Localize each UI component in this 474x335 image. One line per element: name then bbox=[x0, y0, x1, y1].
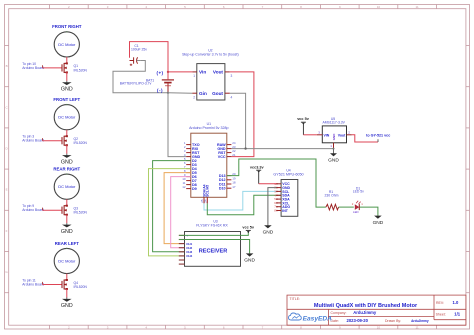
svg-text:Arduino Board: Arduino Board bbox=[22, 282, 44, 286]
svg-text:Gin: Gin bbox=[199, 91, 207, 96]
svg-text:IRL520N: IRL520N bbox=[74, 68, 88, 72]
wire C1 minus to battery minus bbox=[113, 61, 168, 93]
pin 2 U5 Vout bbox=[347, 134, 352, 136]
svg-text:vcc 5v: vcc 5v bbox=[242, 225, 255, 229]
op-module U2 step-up converter bbox=[182, 49, 239, 100]
wire receiver plus to vcc5v bbox=[179, 231, 248, 235]
wire U5 Vout to net label bbox=[352, 135, 378, 142]
svg-text:Arduino Board: Arduino Board bbox=[22, 66, 44, 70]
pin 24b U1 SCL/A5 bbox=[203, 185, 209, 204]
resistor R1 230 Ohm bbox=[325, 190, 339, 210]
pin 3 U1 RST bbox=[184, 149, 200, 155]
svg-text:GND: GND bbox=[244, 258, 255, 264]
svg-text:BATTERY/LIPO-3.7v: BATTERY/LIPO-3.7v bbox=[120, 82, 152, 86]
svg-text:GND: GND bbox=[332, 133, 336, 141]
pin 1 U4 VCC bbox=[274, 182, 290, 186]
wire receiver minus to GND bbox=[179, 240, 250, 254]
svg-text:DC Motor: DC Motor bbox=[58, 184, 76, 189]
ground receiver bbox=[244, 253, 255, 263]
svg-text:E: E bbox=[6, 188, 8, 192]
svg-text:230 Ohm: 230 Ohm bbox=[325, 194, 339, 198]
label Q2 IRL520N bbox=[74, 137, 88, 145]
wire battery minus to U2 Gin bbox=[168, 92, 192, 94]
svg-text:Gout: Gout bbox=[212, 91, 223, 96]
wire D2 to receiver CH3 bbox=[153, 161, 191, 252]
pin 6 U4 XCL bbox=[274, 201, 290, 205]
svg-text:1/1: 1/1 bbox=[454, 312, 460, 317]
title block frame bbox=[287, 295, 466, 325]
pin 7 U3 nc bbox=[179, 259, 185, 261]
wire C1 plus loop bbox=[130, 42, 169, 72]
svg-text:11: 11 bbox=[416, 5, 419, 9]
svg-text:GND: GND bbox=[328, 157, 339, 163]
pin 21 U1 VCC bbox=[218, 153, 236, 159]
wire gate Q1 bbox=[43, 67, 62, 69]
wire D5 to receiver CH1 bbox=[164, 173, 191, 244]
svg-text:to GY-521 vcc: to GY-521 vcc bbox=[366, 133, 390, 137]
svg-text:GND: GND bbox=[61, 87, 73, 93]
svg-text:INT: INT bbox=[282, 209, 289, 213]
svg-text:D10: D10 bbox=[219, 187, 226, 191]
svg-text:GND: GND bbox=[61, 303, 73, 309]
svg-text:Step-up Converter 3.7v to 5v (: Step-up Converter 3.7v to 5v (boost) bbox=[182, 53, 239, 57]
DC motor M4 bbox=[54, 248, 79, 274]
svg-text:10: 10 bbox=[377, 5, 381, 9]
pin 4 U4 SDA bbox=[274, 193, 290, 197]
wire battery plus to U2 Vin bbox=[168, 71, 192, 73]
svg-text:Sheet:: Sheet: bbox=[436, 313, 446, 317]
pin 3 U3 CH1 bbox=[179, 242, 193, 246]
power flag vcc5v receiver bbox=[242, 225, 255, 233]
pin 8 U4 INT bbox=[274, 209, 289, 213]
wire Gout net to U5 GND bbox=[246, 148, 334, 150]
transistor Q3 IRL520N bbox=[62, 205, 68, 216]
ground LED bbox=[373, 216, 384, 226]
svg-text:B: B bbox=[6, 64, 8, 68]
ground of Q3 bbox=[61, 223, 73, 235]
wire gate Q3 bbox=[43, 209, 62, 211]
label Q1 IRL520N bbox=[74, 64, 88, 72]
pin 18 U1 D11 bbox=[219, 181, 236, 187]
svg-text:2023-09-20: 2023-09-20 bbox=[347, 318, 369, 323]
svg-text:Vin: Vin bbox=[199, 70, 206, 75]
label C1 100uF 25v bbox=[131, 44, 147, 52]
wire D1 to GND bbox=[360, 207, 378, 216]
svg-text:(+): (+) bbox=[157, 71, 164, 76]
wire U4 GND down bbox=[268, 188, 277, 226]
svg-text:FRONT RIGHT: FRONT RIGHT bbox=[52, 24, 82, 29]
pin 3 U2 Vout bbox=[225, 71, 230, 73]
svg-text:LED: LED bbox=[353, 210, 359, 214]
op-module U1 Arduino Pro Mini bbox=[189, 122, 228, 197]
pin 8 U3 nc bbox=[179, 263, 185, 265]
pin 1 U2 Vin bbox=[192, 71, 196, 73]
wire vcc5v to U5 VIN bbox=[303, 134, 317, 136]
svg-text:vcc 5v: vcc 5v bbox=[297, 117, 310, 121]
svg-text:11: 11 bbox=[416, 325, 419, 329]
pin 6 U1 D3 bbox=[184, 161, 197, 167]
pin 3 U4 SCL bbox=[274, 189, 290, 193]
svg-text:VCC: VCC bbox=[218, 155, 226, 159]
transistor Q1 IRL520N bbox=[62, 62, 68, 73]
wire R1 to D1 bbox=[339, 206, 354, 208]
svg-text:AMS1117-3.3V: AMS1117-3.3V bbox=[322, 121, 345, 125]
pin 2 U4 GND bbox=[274, 186, 290, 190]
wire U2 Gout to U1 GND bbox=[230, 93, 246, 148]
ground of Q2 bbox=[61, 154, 73, 166]
wire D13 to LED resistor bbox=[227, 159, 326, 207]
pin 7 U1 D4 bbox=[184, 165, 198, 171]
DC motor M3 bbox=[54, 173, 79, 199]
pin 19 U1 D12 bbox=[219, 176, 236, 182]
svg-text:Arduino Board: Arduino Board bbox=[22, 208, 44, 212]
pin 1 U1 TXO bbox=[184, 141, 200, 147]
svg-text:EasyEDA: EasyEDA bbox=[303, 316, 333, 323]
logo EasyEDA bbox=[289, 313, 333, 323]
pin 24 U1 RAW bbox=[217, 141, 236, 147]
node U5 gnd tee bbox=[333, 148, 335, 150]
svg-text:12: 12 bbox=[182, 185, 186, 189]
pin 7 U4 ADO bbox=[274, 205, 290, 209]
pin 1 U5 GND bbox=[333, 143, 335, 149]
pin 11 U1 D8 bbox=[182, 181, 196, 187]
svg-text:REAR LEFT: REAR LEFT bbox=[55, 241, 79, 246]
pin 4 U3 CH2 bbox=[179, 246, 193, 250]
label BAT1 BATTERY/LIPO-3.7v bbox=[120, 78, 154, 85]
svg-text:Vout: Vout bbox=[338, 133, 346, 137]
pin 23 U1 GND bbox=[217, 145, 235, 151]
power flag vcc3.3v bbox=[250, 165, 265, 183]
node battery plus junction bbox=[167, 71, 169, 73]
wire gate Q2 bbox=[43, 140, 62, 142]
wire motor M1 to Q1 drain bbox=[66, 57, 68, 63]
svg-text:LED 5v: LED 5v bbox=[353, 190, 364, 194]
svg-text:21: 21 bbox=[232, 153, 236, 157]
svg-text:IRL520N: IRL520N bbox=[74, 211, 88, 215]
svg-text:DC Motor: DC Motor bbox=[58, 115, 76, 120]
svg-text:ArduJimmy: ArduJimmy bbox=[353, 310, 377, 315]
pin 8 U1 D5 bbox=[184, 169, 197, 175]
svg-text:vcc3.3v: vcc3.3v bbox=[250, 165, 265, 169]
svg-text:REAR RIGHT: REAR RIGHT bbox=[53, 167, 80, 172]
svg-text:Drawn By:: Drawn By: bbox=[385, 319, 401, 323]
label battery plus/minus bbox=[157, 71, 164, 93]
svg-text:DC Motor: DC Motor bbox=[58, 42, 76, 47]
op-module U3 FLYSKY receiver bbox=[185, 220, 241, 267]
svg-text:ArduJimmy: ArduJimmy bbox=[411, 319, 429, 323]
svg-text:10: 10 bbox=[377, 325, 381, 329]
pin 10 U1 D7 bbox=[182, 177, 196, 183]
label Q3 IRL520N bbox=[74, 207, 88, 215]
svg-text:IRL520N: IRL520N bbox=[74, 141, 88, 145]
wire gate Q4 bbox=[43, 284, 62, 286]
pin 2 U3 - bbox=[179, 238, 187, 242]
wire motor M3 to Q3 drain bbox=[66, 199, 68, 205]
pin 5 U4 XDA bbox=[274, 197, 290, 201]
wire Q3 source to ground bbox=[66, 215, 68, 224]
wire battery minus down to U1 GND bbox=[168, 93, 186, 157]
svg-text:100uF 25v: 100uF 25v bbox=[131, 48, 147, 52]
pin 6 U3 CH4 bbox=[179, 254, 193, 258]
wire U2 Vout to U1 VCC bbox=[230, 72, 254, 157]
transistor Q4 IRL520N bbox=[62, 279, 68, 290]
svg-text:2: 2 bbox=[193, 95, 195, 99]
wire A4 SDA to U4 SCL bbox=[204, 191, 281, 210]
svg-text:RECEIVER: RECEIVER bbox=[199, 248, 228, 254]
svg-text:TITLE:: TITLE: bbox=[290, 297, 301, 301]
battery BAT1 bbox=[162, 72, 174, 93]
DC motor M1 bbox=[54, 31, 79, 57]
svg-text:Multiwii QuadX with DIY Brushe: Multiwii QuadX with DIY Brushed Motor bbox=[314, 303, 418, 309]
ground of Q1 bbox=[61, 81, 73, 93]
wire D6 to receiver CH2 bbox=[171, 177, 191, 248]
svg-text:24: 24 bbox=[203, 199, 207, 203]
net label To pin 9 Arduino Board bbox=[22, 204, 44, 212]
LED D1 bbox=[352, 186, 364, 214]
node battery minus junction bbox=[167, 92, 169, 94]
svg-text:Arduino Board: Arduino Board bbox=[22, 139, 44, 143]
svg-text:GND: GND bbox=[61, 229, 73, 235]
pin 4 U1 GND bbox=[184, 153, 201, 159]
pin 20 U1 D13 bbox=[219, 172, 236, 178]
svg-text:FLYSKY FS-I6X RX: FLYSKY FS-I6X RX bbox=[196, 224, 228, 228]
svg-text:CH4: CH4 bbox=[186, 254, 192, 258]
wire vcc3.3v to U4 VCC bbox=[259, 183, 277, 185]
svg-text:1: 1 bbox=[193, 74, 195, 78]
net label To pin 3 Arduino Board bbox=[22, 135, 44, 143]
svg-text:Arduino Promini 5v 328p: Arduino Promini 5v 328p bbox=[189, 126, 228, 130]
svg-text:D9: D9 bbox=[192, 187, 197, 191]
pin 5 U3 CH3 bbox=[179, 250, 193, 254]
svg-text:REV:: REV: bbox=[436, 301, 444, 305]
svg-text:VIN: VIN bbox=[324, 133, 330, 137]
svg-text:GND: GND bbox=[263, 229, 274, 235]
svg-text:17: 17 bbox=[232, 185, 236, 189]
net label To pin 10 Arduino Board bbox=[22, 62, 44, 70]
transistor Q2 IRL520N bbox=[62, 135, 68, 146]
node GND junction bbox=[244, 147, 246, 149]
pin 2 U1 RXI bbox=[184, 145, 198, 151]
wire Q4 source to ground bbox=[66, 289, 68, 298]
power flag vcc5v U5 bbox=[297, 117, 310, 135]
svg-text:Vout: Vout bbox=[213, 70, 224, 75]
pin 22 U1 RST bbox=[218, 149, 236, 155]
svg-text:3: 3 bbox=[231, 74, 233, 78]
pin 12 U1 D9 bbox=[182, 185, 196, 191]
svg-text:SCL/A5: SCL/A5 bbox=[206, 185, 210, 197]
wire motor M2 to Q2 drain bbox=[66, 130, 68, 136]
pin 9 U1 D6 bbox=[184, 173, 197, 179]
svg-text:GND: GND bbox=[373, 220, 384, 226]
wire Q2 source to ground bbox=[66, 145, 68, 154]
title block texts bbox=[290, 297, 446, 323]
pin 17 U1 D10 bbox=[219, 185, 236, 191]
wire D4 to receiver CH4 bbox=[149, 169, 191, 256]
svg-text:FRONT LEFT: FRONT LEFT bbox=[53, 97, 80, 102]
DC motor M2 bbox=[54, 104, 79, 130]
svg-text:GND: GND bbox=[61, 159, 73, 165]
svg-text:Company:: Company: bbox=[331, 311, 347, 315]
pin 4 U2 Gout bbox=[225, 92, 230, 94]
label Q4 IRL520N bbox=[74, 281, 88, 289]
wire motor M4 to Q4 drain bbox=[66, 274, 68, 280]
ground of Q4 bbox=[61, 297, 73, 309]
svg-text:IRL520N: IRL520N bbox=[74, 285, 88, 289]
svg-text:(-): (-) bbox=[157, 88, 163, 93]
svg-text:F: F bbox=[6, 229, 8, 233]
pin 1 U3 + bbox=[179, 234, 188, 238]
svg-text:4: 4 bbox=[231, 95, 233, 99]
svg-text:DC Motor: DC Motor bbox=[58, 259, 76, 264]
pin 3 U5 VIN bbox=[317, 134, 322, 136]
capacitor C1 bbox=[130, 57, 141, 66]
ground U4 bbox=[263, 225, 274, 235]
pin 25 U1 SDA/A4 bbox=[200, 184, 206, 203]
svg-text:GY521 MPU-6050: GY521 MPU-6050 bbox=[273, 173, 303, 177]
svg-text:1.0: 1.0 bbox=[453, 300, 459, 305]
ground U5 bbox=[328, 149, 339, 164]
wire A5 SCL to U4 SDA bbox=[207, 195, 281, 215]
pin 5 U1 D2 bbox=[184, 157, 197, 163]
pin 2 U2 Gin bbox=[192, 92, 196, 94]
op-module U5 AMS1117-3.3V bbox=[322, 117, 346, 143]
net label To pin 11 Arduino Board bbox=[22, 279, 44, 287]
net label to GY-521 vcc bbox=[366, 133, 390, 142]
wire Q1 source to ground bbox=[66, 72, 68, 81]
op-module U4 GY-521 MPU-6050 bbox=[273, 169, 303, 217]
